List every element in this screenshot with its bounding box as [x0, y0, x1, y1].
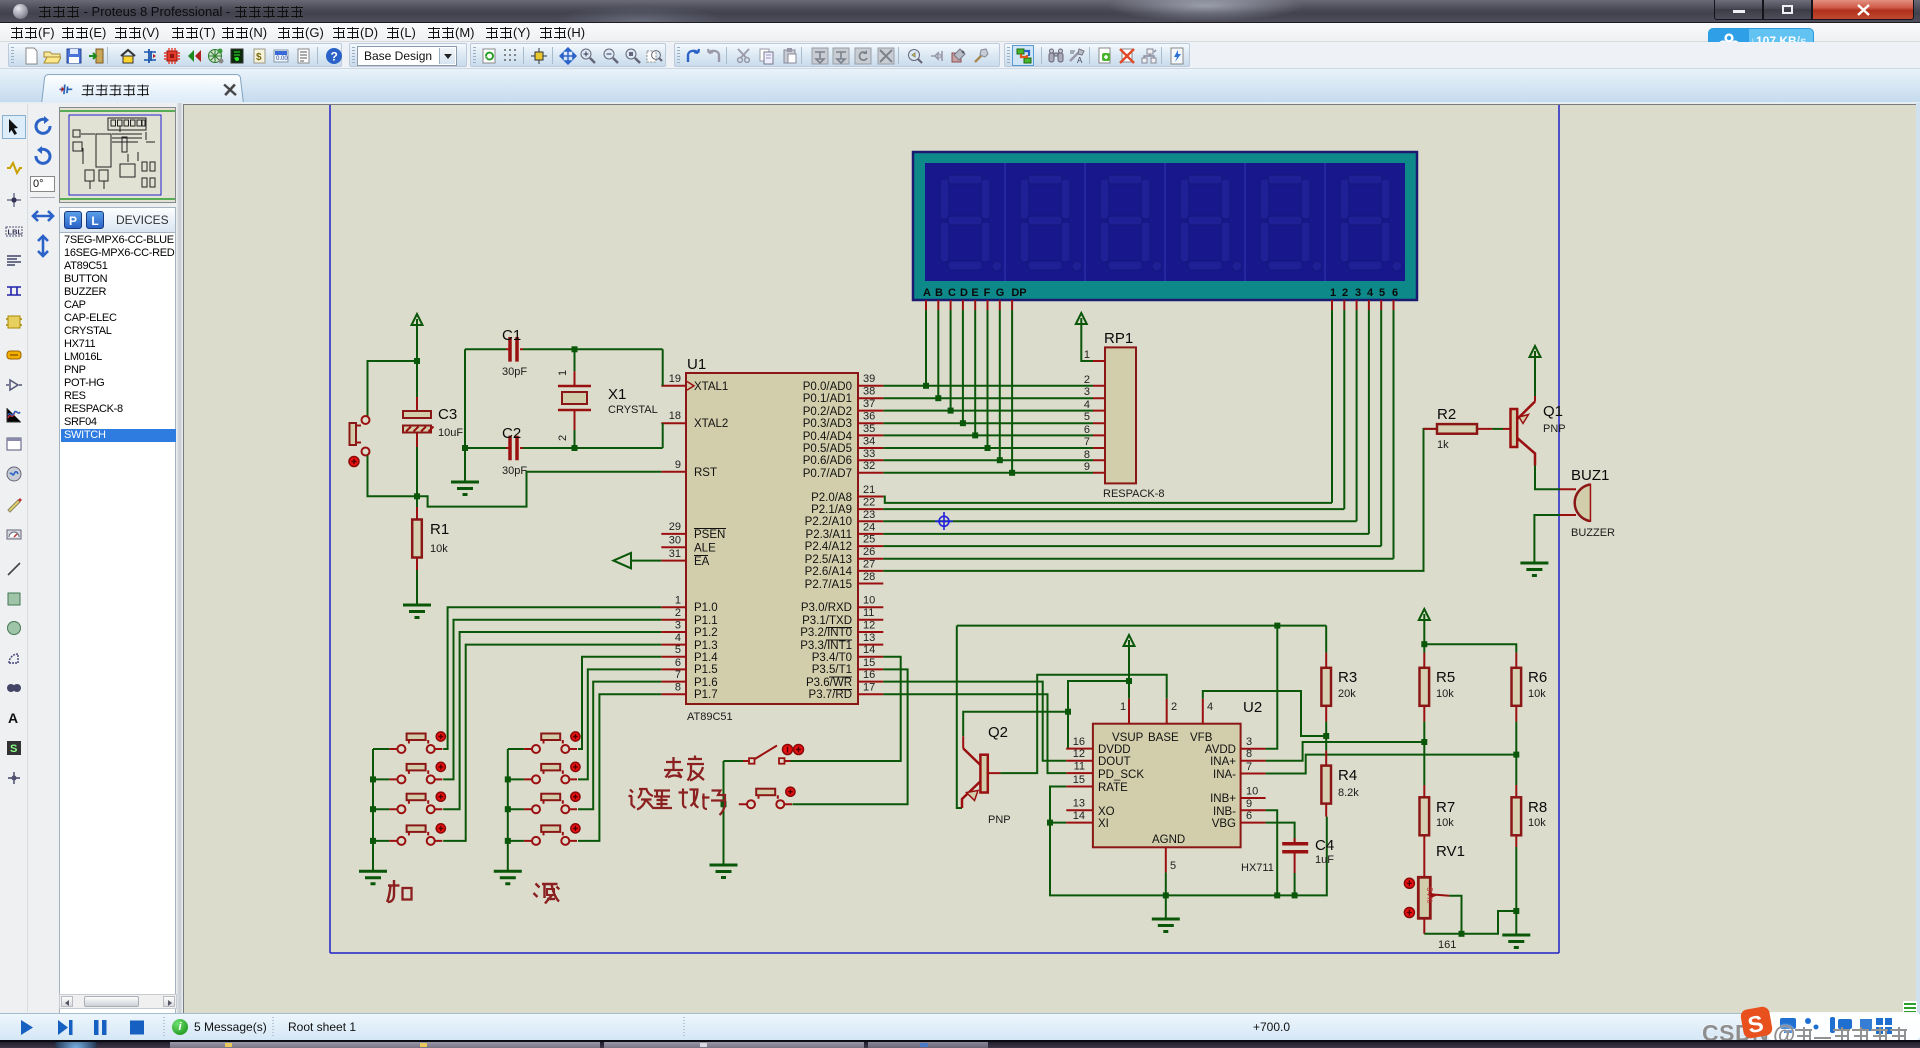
label set switch (Chinese shezhiqiehuan) [629, 789, 726, 816]
wire Q2 collector up to junction [963, 712, 1068, 737]
svg-text:12: 12 [1073, 748, 1085, 760]
label add (Chinese jia) [387, 880, 412, 902]
wire Q1 collector to BUZ1 [1535, 466, 1560, 490]
svg-text:P0.7/AD7: P0.7/AD7 [803, 468, 852, 480]
svg-text:P2.7/A15: P2.7/A15 [805, 579, 852, 591]
svg-text:R6: R6 [1528, 669, 1547, 686]
svg-text:INB+: INB+ [1210, 793, 1236, 805]
svg-text:1k: 1k [1437, 439, 1449, 451]
svg-text:14: 14 [1073, 810, 1085, 822]
svg-text:EA: EA [694, 556, 710, 568]
wire P2.5 to display pin6 [883, 558, 1393, 560]
svg-text:32: 32 [863, 460, 875, 472]
svg-text:AVDD: AVDD [1205, 744, 1236, 756]
svg-text:0.00: 0.00 [276, 56, 288, 62]
svg-text:INA+: INA+ [1210, 756, 1236, 768]
svg-text:P2.0/A8: P2.0/A8 [811, 492, 852, 504]
svg-text:P1.0: P1.0 [694, 602, 718, 614]
svg-text:VSUP: VSUP [1112, 732, 1144, 744]
resistor R2 1k [1424, 406, 1493, 451]
svg-text:13: 13 [1073, 798, 1085, 810]
wire P3.7 to PD_SCK [883, 694, 1066, 773]
svg-text:P3.1/TXD: P3.1/TXD [802, 615, 852, 627]
wire C1 right to XTAL1 node [523, 348, 663, 350]
node dot C4 gnd [1292, 892, 1298, 898]
svg-text:15: 15 [863, 657, 875, 669]
node dot VSUP junction [1126, 678, 1132, 684]
wire AVDD to vcc rail [1266, 626, 1278, 749]
svg-text:3: 3 [675, 620, 681, 632]
svg-text:13: 13 [863, 632, 875, 644]
node dot INB- gnd [1274, 892, 1280, 898]
svg-text:F: F [984, 287, 991, 299]
power vcc arrow R5 R6 [1419, 609, 1430, 620]
svg-text:15: 15 [1073, 774, 1085, 786]
svg-text:27: 27 [863, 559, 875, 571]
svg-text:2: 2 [1084, 374, 1090, 386]
sheet border bottom edge [330, 952, 1559, 954]
svg-text:U2: U2 [1243, 699, 1262, 716]
tab bar [0, 68, 1920, 103]
svg-text:P0.5/AD5: P0.5/AD5 [803, 443, 852, 455]
svg-text:23: 23 [863, 509, 875, 521]
wire XTAL1 drop [662, 349, 664, 386]
svg-text:P0.0/AD0: P0.0/AD0 [803, 381, 852, 393]
svg-text:35: 35 [863, 423, 875, 435]
svg-text:C1: C1 [502, 327, 521, 344]
wire R6 bottom to junction [1515, 722, 1517, 755]
resistor R7 10k [1420, 742, 1456, 877]
node dot RV1 wiper bottom [1459, 931, 1465, 937]
capacitor C2 30pF [465, 425, 527, 477]
svg-text:10: 10 [1246, 786, 1258, 798]
svg-text:36: 36 [863, 411, 875, 423]
node dot XI junction [1047, 820, 1053, 826]
svg-text:RESPACK-8: RESPACK-8 [1103, 488, 1165, 500]
svg-text:10k: 10k [430, 543, 448, 555]
resistor R5 10k [1420, 653, 1456, 722]
potentiometer RV1 [1404, 843, 1465, 951]
svg-text:R5: R5 [1436, 669, 1455, 686]
svg-text:P2.2/A10: P2.2/A10 [805, 516, 852, 528]
resistor R4 8.2k [1321, 736, 1359, 817]
ground R1 [403, 605, 431, 618]
svg-text:R3: R3 [1338, 669, 1357, 686]
svg-text:P2.1/A9: P2.1/A9 [811, 504, 852, 516]
net speed badge [1708, 28, 1814, 53]
wire switch to P3.4 [791, 657, 901, 761]
svg-text:AT89C51: AT89C51 [687, 711, 733, 723]
ground BUZ1 [1520, 563, 1548, 576]
svg-text:5: 5 [675, 644, 681, 656]
resistor R6 10k [1512, 653, 1548, 722]
svg-text:30pF: 30pF [502, 465, 527, 477]
EA input arrow [614, 553, 632, 568]
svg-text:30: 30 [669, 535, 681, 547]
svg-text:XTAL2: XTAL2 [694, 418, 728, 430]
svg-text:P2.5/A13: P2.5/A13 [805, 554, 852, 566]
wire vcc arrow to VSUP [1128, 646, 1130, 699]
label tare (Chinese qupi) [664, 756, 704, 781]
wire P1.3 to button add4 [443, 645, 661, 841]
node dot R3 bottom [1323, 733, 1329, 739]
svg-text:P0.2/AD2: P0.2/AD2 [803, 406, 852, 418]
push button add3 [389, 792, 445, 813]
svg-text:P2.6/A14: P2.6/A14 [805, 566, 853, 578]
svg-text:VFB: VFB [1190, 732, 1213, 744]
svg-text:28: 28 [863, 571, 875, 583]
svg-text:P1.5: P1.5 [694, 664, 718, 676]
svg-text:8: 8 [1246, 748, 1252, 760]
svg-text:1: 1 [1084, 349, 1090, 361]
node dot Q2 collector junction [1065, 709, 1071, 715]
svg-text:30pF: 30pF [502, 366, 527, 378]
svg-text:2: 2 [675, 607, 681, 619]
svg-text:B: B [935, 287, 943, 299]
svg-text:3: 3 [1246, 736, 1252, 748]
svg-text:D: D [960, 287, 968, 299]
wire vcc to R5 R6 tops [1424, 620, 1516, 653]
power vcc arrow at RP1 pin1 [1076, 313, 1087, 324]
wire vcc rail hx711 [957, 625, 1326, 627]
svg-text:P3.6/WR: P3.6/WR [806, 677, 852, 689]
svg-text:21: 21 [863, 484, 875, 496]
wire P2.1 to display pin2 [883, 508, 1344, 510]
svg-text:A: A [923, 287, 931, 299]
wire P1.5 to button sub2 [578, 669, 661, 779]
power vcc arrow Q1 [1530, 346, 1541, 357]
capacitor C4 1uF [1266, 823, 1335, 873]
svg-text:11: 11 [863, 607, 874, 619]
svg-text:1: 1 [557, 370, 569, 376]
wire P2.2 to display pin3 [883, 520, 1356, 522]
svg-text:R7: R7 [1436, 799, 1455, 816]
wire C3 to junction2 [416, 447, 418, 496]
svg-text:ALE: ALE [694, 543, 716, 555]
wire reset button bottom to junction [368, 456, 418, 497]
svg-text:33: 33 [863, 448, 875, 460]
svg-text:25: 25 [863, 534, 875, 546]
wire tare bus vertical [723, 761, 725, 865]
svg-text:PNP: PNP [1543, 423, 1566, 435]
svg-text:A: A [8, 710, 18, 726]
svg-text:9: 9 [1246, 798, 1252, 810]
push button add4 [389, 824, 445, 845]
svg-text:INA-: INA- [1213, 769, 1236, 781]
svg-text:1: 1 [675, 595, 681, 607]
junction dots P0 bus [923, 383, 1015, 476]
svg-text:S: S [10, 743, 17, 755]
svg-text:4: 4 [1084, 399, 1090, 411]
wire C1 C2 left vertical [464, 349, 466, 482]
svg-text:Q2: Q2 [988, 724, 1008, 741]
wire P1.1 to button add2 [443, 620, 661, 780]
wire P2.0 to display pin1 [883, 497, 1332, 503]
svg-text:R1: R1 [430, 521, 449, 538]
svg-text:U1: U1 [687, 356, 706, 373]
svg-text:P3.0/RXD: P3.0/RXD [801, 602, 852, 614]
svg-text:P1.2: P1.2 [694, 627, 718, 639]
svg-text:P2.3/A11: P2.3/A11 [806, 529, 852, 541]
ground AGND [1152, 919, 1180, 932]
svg-text:8: 8 [1084, 449, 1090, 461]
svg-text:C3: C3 [438, 406, 457, 423]
svg-text:161: 161 [1438, 939, 1456, 951]
wire R5 bottom to junction [1423, 722, 1425, 742]
svg-text:4: 4 [1367, 287, 1374, 299]
svg-text:CRYSTAL: CRYSTAL [608, 404, 658, 416]
svg-text:16: 16 [863, 669, 875, 681]
toolbar [0, 42, 1920, 68]
resistor R1 10k [412, 496, 449, 570]
push button setsel [739, 787, 795, 808]
wire P0.0..P0.7 horizontals U1 to RP1 [883, 386, 1093, 473]
mcu U1 AT89C51 [661, 356, 883, 723]
ic U2 HX711 [1066, 699, 1274, 874]
wire AGND down to gnd rail [1165, 872, 1167, 919]
wire button setsel to P3.5 [792, 669, 907, 804]
svg-text:6: 6 [1392, 287, 1398, 299]
svg-text:PSEN: PSEN [694, 529, 725, 541]
node dots sub bus [505, 776, 511, 844]
svg-text:2: 2 [1342, 287, 1348, 299]
svg-text:17: 17 [863, 682, 875, 694]
wire P2.4 to display pin5 [883, 545, 1381, 547]
svg-text:3: 3 [1084, 386, 1090, 398]
svg-text:9: 9 [675, 459, 681, 471]
wire Q2 collector-emitter vertical [957, 626, 962, 808]
ground sub column [494, 871, 522, 884]
svg-text:7: 7 [1084, 436, 1090, 448]
wire add column bus [373, 749, 389, 871]
wire junction to reset button top [368, 361, 418, 416]
wire RV1 wiper to bottom [1449, 896, 1461, 934]
svg-text:10k: 10k [1436, 817, 1454, 829]
svg-text:BUZZER: BUZZER [1571, 527, 1615, 539]
svg-text:INB-: INB- [1213, 806, 1236, 818]
svg-text:39: 39 [863, 373, 875, 385]
svg-text:31: 31 [669, 548, 681, 560]
svg-text:P0.3/AD3: P0.3/AD3 [803, 418, 852, 430]
wire C2 right to XTAL2 node [523, 447, 663, 449]
svg-text:11: 11 [1074, 761, 1085, 773]
svg-text:7: 7 [1246, 761, 1252, 773]
svg-text:RATE: RATE [1098, 782, 1128, 794]
node dot R8 wiper net [1513, 908, 1519, 914]
wire P1.4 to button sub1 [578, 657, 661, 749]
wire VFB to R3R4 junction [1203, 691, 1326, 736]
wire R1 to ground [416, 570, 418, 605]
wire C4 to gnd rail [1294, 873, 1296, 895]
wire RV1 bottom rail to R8 gnd [1423, 918, 1425, 934]
svg-text:12: 12 [863, 620, 875, 632]
svg-text:16: 16 [1073, 736, 1085, 748]
svg-text:PNP: PNP [988, 814, 1011, 826]
node dot vcc rail avdd [1274, 623, 1280, 629]
wire P3.6 to DOUT [883, 682, 1066, 761]
ground R8 [1502, 935, 1530, 948]
svg-text:P0.1/AD1: P0.1/AD1 [803, 393, 852, 405]
wire P1.6 to button sub3 [578, 682, 661, 810]
push button sub3 [524, 792, 580, 813]
svg-text:Q1: Q1 [1543, 403, 1563, 420]
svg-text:6: 6 [1084, 424, 1090, 436]
status bar [0, 1013, 1920, 1040]
svg-text:14: 14 [863, 644, 875, 656]
node dot R5 R7 [1421, 739, 1427, 745]
wire XI stub link [1050, 822, 1066, 824]
svg-text:E: E [971, 287, 978, 299]
wire display digit pins to P2 bus [1332, 310, 1394, 559]
svg-text:C: C [948, 287, 956, 299]
svg-text:P2.4/A12: P2.4/A12 [805, 541, 852, 553]
svg-text:9: 9 [1084, 461, 1090, 473]
node junction at 417,361 [414, 358, 420, 364]
wire P1.2 to button add3 [443, 632, 661, 809]
svg-text:DVDD: DVDD [1098, 744, 1131, 756]
svg-text:37: 37 [863, 398, 875, 410]
svg-text:6: 6 [1246, 810, 1252, 822]
svg-text:$: $ [256, 52, 262, 63]
wire display segment pins to P0 bus [926, 310, 1012, 473]
node dot tare bus [721, 801, 727, 807]
node junction at 465,448 [462, 445, 468, 451]
svg-text:10k: 10k [1528, 817, 1546, 829]
node junction X1 top [572, 346, 578, 352]
wire P2.6 to R2 [883, 429, 1437, 571]
svg-text:3: 3 [1355, 287, 1361, 299]
ground tare bus [710, 865, 738, 878]
svg-text:G: G [996, 287, 1005, 299]
svg-text:P1.7: P1.7 [694, 689, 718, 701]
wire R8 to ground [1515, 847, 1517, 935]
node dot AGND junction [1163, 892, 1169, 898]
ground near C2 [451, 482, 479, 495]
svg-text:1: 1 [1120, 701, 1126, 713]
svg-text:29: 29 [669, 521, 681, 533]
push button sub1 [524, 732, 580, 753]
node dot vcc R5 [1421, 641, 1427, 647]
svg-text:P1.4: P1.4 [694, 652, 718, 664]
svg-text:10uF: 10uF [438, 427, 463, 439]
push button sub4 [524, 824, 580, 845]
svg-text:BUZ1: BUZ1 [1571, 467, 1609, 484]
push button add1 [389, 732, 445, 753]
svg-text:RV1: RV1 [1436, 843, 1465, 860]
switch tare [724, 745, 804, 764]
svg-text:X1: X1 [608, 386, 626, 403]
window title bar [0, 0, 1920, 23]
menu bar [0, 23, 1920, 42]
resistor pack RP1 RESPACK-8 [1084, 330, 1165, 500]
wire R2 to Q1 base [1492, 428, 1503, 430]
wire Q2 base to BASE pin2 [1000, 675, 1166, 773]
svg-text:R8: R8 [1528, 799, 1547, 816]
svg-text:7: 7 [675, 669, 681, 681]
svg-text:P3.7/RD: P3.7/RD [809, 689, 852, 701]
svg-text:PD_SCK: PD_SCK [1098, 769, 1144, 781]
svg-text:18: 18 [669, 410, 681, 422]
svg-text:10k: 10k [1528, 688, 1546, 700]
wire XTAL2 rise [662, 423, 664, 448]
svg-text:XTAL1: XTAL1 [694, 381, 728, 393]
svg-text:P0.6/AD6: P0.6/AD6 [803, 455, 852, 467]
svg-text:?: ? [331, 50, 338, 64]
ground add column [359, 871, 387, 884]
svg-text:4: 4 [675, 632, 681, 644]
wire vcc to RP1 pin1 [1081, 324, 1093, 361]
svg-text:XI: XI [1098, 818, 1109, 830]
wire BUZ1 bottom to ground [1534, 515, 1560, 563]
sheet border right edge [1558, 105, 1560, 953]
resistor R3 20k [1321, 626, 1357, 722]
svg-text:RST: RST [694, 467, 717, 479]
svg-text:P3.2/INT0: P3.2/INT0 [800, 627, 852, 639]
node junction X1 bottom [572, 445, 578, 451]
svg-text:R4: R4 [1338, 767, 1357, 784]
wire vcc down to C3 [416, 325, 418, 361]
svg-text:4: 4 [1207, 701, 1213, 713]
crystal X1 [557, 349, 658, 448]
wire EA [632, 560, 661, 562]
svg-text:P0.4/AD4: P0.4/AD4 [803, 431, 853, 443]
power vcc arrow HX711 [1124, 635, 1135, 646]
svg-text:26: 26 [863, 546, 875, 558]
svg-text:XO: XO [1098, 806, 1115, 818]
capacitor C1 30pF [465, 327, 527, 378]
transistor Q1 PNP [1503, 396, 1566, 466]
push button reset [349, 416, 370, 467]
wire INA+ to R5R7 [1266, 742, 1425, 761]
svg-text:1: 1 [1330, 287, 1336, 299]
sheet border left edge [329, 105, 331, 953]
svg-text:20k: 20k [1338, 688, 1356, 700]
svg-text:10k: 10k [1436, 688, 1454, 700]
svg-text:P1.6: P1.6 [694, 677, 718, 689]
svg-text:8.2k: 8.2k [1338, 787, 1359, 799]
wire gnd rail right [1166, 817, 1327, 896]
svg-text:34: 34 [863, 436, 875, 448]
svg-text:AGND: AGND [1152, 834, 1185, 846]
svg-text:R2: R2 [1437, 406, 1456, 423]
node dot R6 R8 [1513, 752, 1519, 758]
svg-text:RP1: RP1 [1104, 330, 1133, 347]
svg-text:P1.3: P1.3 [694, 640, 718, 652]
capacitor C3 10uF [403, 361, 463, 447]
svg-text:1uF: 1uF [1315, 854, 1334, 866]
push button add2 [389, 762, 445, 783]
svg-text:10: 10 [863, 595, 875, 607]
wire INA- to R6R8 [1266, 755, 1517, 774]
svg-text:HX711: HX711 [1241, 862, 1274, 874]
svg-text:5: 5 [1170, 860, 1176, 872]
svg-text:8: 8 [675, 682, 681, 694]
svg-text:P1.1: P1.1 [694, 615, 718, 627]
wire vcc to Q1 emitter [1534, 357, 1536, 396]
power vcc arrow reset circuit [412, 314, 423, 325]
wire junction to DVDD and VSUP [1068, 681, 1129, 749]
svg-text:A: A [1077, 56, 1083, 65]
svg-text:DOUT: DOUT [1098, 756, 1131, 768]
svg-text:38: 38 [863, 386, 875, 398]
wire sub column bus [508, 749, 524, 871]
svg-text:P3.3/INT1: P3.3/INT1 [800, 640, 852, 652]
7-segment display 7SEG-MPX6-CC-BLUE [913, 152, 1417, 310]
wire P2.3 to display pin4 [883, 533, 1369, 535]
svg-text:5: 5 [1379, 287, 1385, 299]
cursor crosshair [935, 512, 953, 530]
wire DVDD stub link [1066, 748, 1068, 750]
